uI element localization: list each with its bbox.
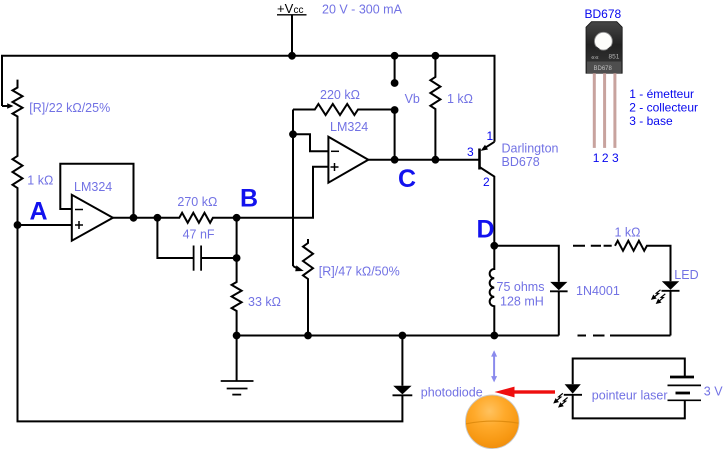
svg-text:1 kΩ: 1 kΩ xyxy=(27,174,53,188)
svg-text:photodiode: photodiode xyxy=(421,386,483,400)
svg-text:3 - base: 3 - base xyxy=(629,114,673,128)
svg-text:BD678: BD678 xyxy=(585,7,622,21)
svg-text:128 mH: 128 mH xyxy=(500,295,544,309)
svg-text:1: 1 xyxy=(593,151,600,165)
svg-text:LM324: LM324 xyxy=(330,120,368,134)
svg-text:220 kΩ: 220 kΩ xyxy=(320,88,360,102)
svg-text:75 ohms: 75 ohms xyxy=(497,280,545,294)
svg-text:2: 2 xyxy=(483,175,490,189)
svg-text:LED: LED xyxy=(674,268,698,282)
svg-text:1 kΩ: 1 kΩ xyxy=(447,92,473,106)
svg-text:Darlington: Darlington xyxy=(502,142,559,156)
svg-text:+V: +V xyxy=(277,1,294,16)
svg-text:D: D xyxy=(477,216,495,244)
svg-text:BD678: BD678 xyxy=(502,155,540,169)
svg-text:851: 851 xyxy=(609,54,620,61)
svg-text:270 kΩ: 270 kΩ xyxy=(177,195,217,209)
svg-text:LM324: LM324 xyxy=(74,180,112,194)
svg-text:3: 3 xyxy=(612,151,619,165)
svg-text:33 kΩ: 33 kΩ xyxy=(248,295,281,309)
svg-text:BD678: BD678 xyxy=(594,66,613,72)
svg-text:47 nF: 47 nF xyxy=(183,227,215,241)
svg-text:C: C xyxy=(398,165,416,193)
svg-text:pointeur laser: pointeur laser xyxy=(592,388,668,402)
svg-text:[R]/22 kΩ/25%: [R]/22 kΩ/25% xyxy=(29,101,110,115)
svg-text:Vb: Vb xyxy=(405,92,420,106)
svg-text:B: B xyxy=(240,185,258,213)
svg-text:1N4001: 1N4001 xyxy=(576,284,620,298)
svg-text:««: «« xyxy=(591,55,599,62)
svg-text:3 V: 3 V xyxy=(704,385,723,399)
svg-text:cc: cc xyxy=(294,5,304,16)
svg-text:3: 3 xyxy=(467,145,474,159)
svg-text:2: 2 xyxy=(602,151,609,165)
svg-text:2 - collecteur: 2 - collecteur xyxy=(629,100,698,114)
svg-text:A: A xyxy=(30,198,48,226)
svg-text:20 V - 300 mA: 20 V - 300 mA xyxy=(322,3,403,17)
svg-text:1 kΩ: 1 kΩ xyxy=(615,226,641,240)
svg-text:1: 1 xyxy=(487,129,494,143)
svg-text:1 - émetteur: 1 - émetteur xyxy=(629,87,694,101)
svg-text:[R]/47 kΩ/50%: [R]/47 kΩ/50% xyxy=(319,265,400,279)
